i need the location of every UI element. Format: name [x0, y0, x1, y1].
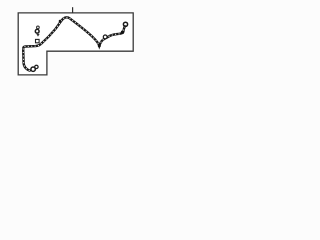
- V-bottom grommet blob: [98, 44, 101, 47]
- bottom-left eyelet ring: [31, 67, 35, 71]
- cable (main run): [23, 17, 125, 70]
- clip ring upper (small): [37, 26, 40, 29]
- chevron clip: [36, 34, 39, 37]
- bottom-left secondary ring: [35, 65, 38, 68]
- background: [0, 0, 150, 86]
- top-right eyelet ring: [123, 22, 127, 26]
- elbow end fitting: [121, 31, 124, 34]
- knot loop on cable: [103, 35, 107, 39]
- clip bead on rising run: [59, 20, 62, 23]
- panel frame (stepped outline): [18, 13, 133, 75]
- square clip: [36, 39, 40, 42]
- grommet ring: [35, 29, 39, 33]
- tick mark on top border: [72, 7, 74, 13]
- cable braid texture: [23, 17, 125, 70]
